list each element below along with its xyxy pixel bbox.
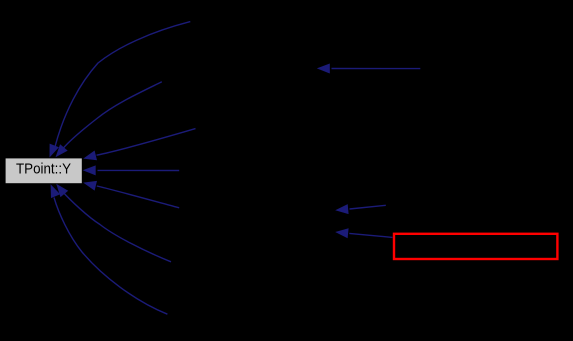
edge E1 (caller 1 -> TPoint::Y): [50, 22, 191, 158]
edge E5 (caller 5 -> TPoint::Y): [83, 181, 179, 208]
node TPoint::Y (gray central node): [6, 158, 82, 183]
edge E6 (caller 6 -> TPoint::Y): [56, 184, 171, 262]
edge E2 (caller 2 -> TPoint::Y): [56, 82, 162, 158]
edge E3 (caller 3 -> TPoint::Y): [83, 129, 195, 161]
node current-function (red highlighted box, label hidden): [394, 234, 557, 259]
edge E7 (caller 7 -> TPoint::Y): [51, 184, 168, 314]
edge E10 (red node -> hidden node): [335, 228, 392, 238]
svg-text:TPoint::Y: TPoint::Y: [16, 161, 71, 178]
edge E8 (hidden node -> hidden node, top): [317, 64, 421, 74]
edge E4 (caller 4 -> TPoint::Y): [83, 165, 180, 175]
edge E9 (hidden node -> hidden node, middle): [335, 204, 386, 214]
